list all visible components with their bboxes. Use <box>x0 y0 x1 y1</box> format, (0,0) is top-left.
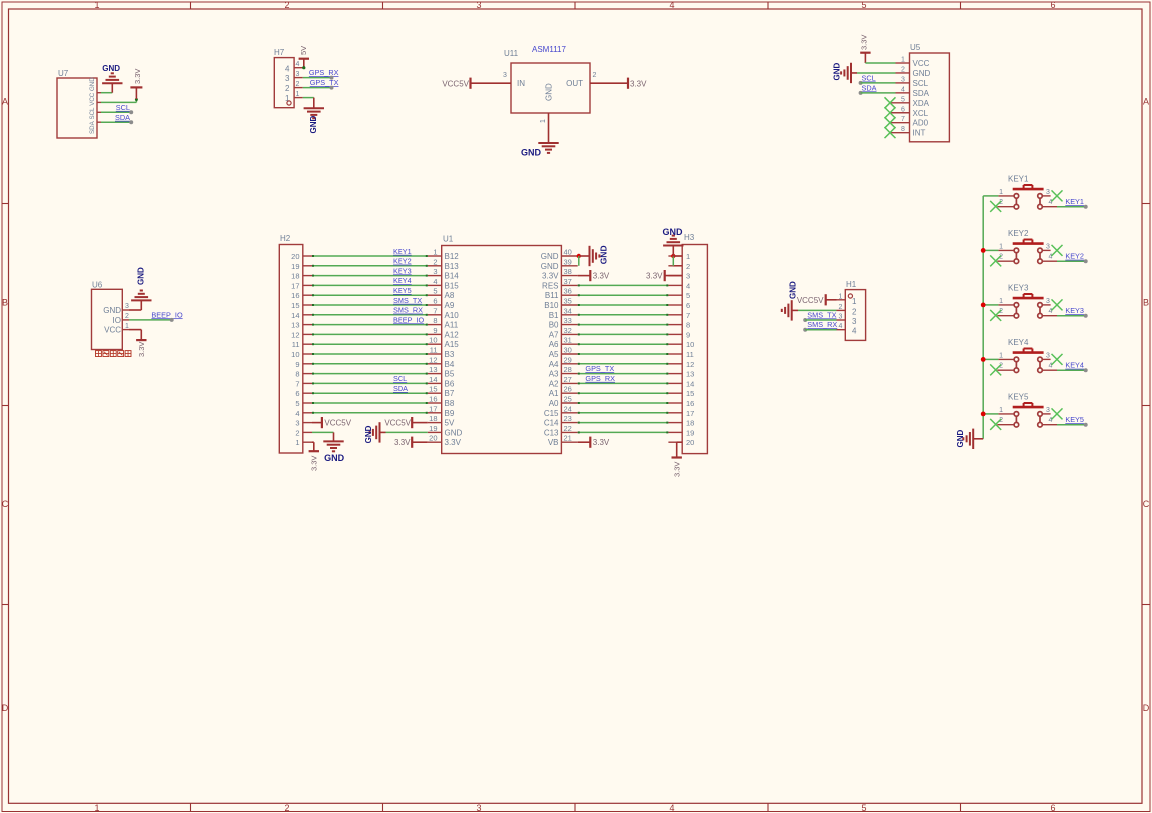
svg-text:3.3V: 3.3V <box>593 272 610 281</box>
pushbutton KEY4 <box>997 338 1057 373</box>
svg-text:2: 2 <box>901 66 905 73</box>
wire KEY4 pin1 to bus <box>983 358 998 360</box>
wire U1 pin23 to H3 pin18 <box>578 422 669 424</box>
svg-text:3.3V: 3.3V <box>133 69 142 84</box>
svg-text:28: 28 <box>564 365 572 374</box>
svg-text:14: 14 <box>291 311 299 320</box>
net label GPS_RX <box>309 68 339 79</box>
svg-text:32: 32 <box>564 326 572 335</box>
svg-text:U5: U5 <box>910 43 921 52</box>
svg-text:22: 22 <box>564 424 572 433</box>
svg-text:21: 21 <box>564 434 572 443</box>
svg-text:7: 7 <box>686 311 690 320</box>
svg-text:KEY3: KEY3 <box>1008 283 1029 292</box>
no-connect X at KEY1 pin3 <box>1052 190 1063 201</box>
no-connect X at U5 pin8 <box>885 127 896 138</box>
svg-text:GND: GND <box>541 262 559 271</box>
svg-text:9: 9 <box>686 330 690 339</box>
no-connect X at U5 pin5 <box>885 97 896 108</box>
net label KEY4 on U1 left <box>393 276 412 285</box>
wire H2 pin17 to U1 pin4 <box>312 284 428 286</box>
svg-text:KEY5: KEY5 <box>393 286 412 295</box>
net label KEY1 <box>1065 197 1087 209</box>
junction at KEY4 pin1 <box>981 357 986 362</box>
svg-text:GND: GND <box>364 425 373 443</box>
svg-text:U1: U1 <box>443 235 454 244</box>
svg-text:16: 16 <box>429 395 437 404</box>
svg-text:13: 13 <box>429 365 437 374</box>
svg-text:11: 11 <box>686 350 694 359</box>
junction at U1 pin40 <box>577 254 581 258</box>
svg-text:C: C <box>2 499 9 509</box>
net label SMS_TX on U1 left <box>393 296 422 305</box>
svg-text:B9: B9 <box>445 409 455 418</box>
svg-text:10: 10 <box>686 340 694 349</box>
svg-text:SDA: SDA <box>862 83 877 92</box>
wire H2 pin2 to ground <box>312 431 334 433</box>
no-connect X at KEY4 pin2 <box>990 364 1001 375</box>
ground symbol at key bus <box>956 429 974 449</box>
svg-text:U7: U7 <box>58 69 69 78</box>
svg-text:H7: H7 <box>274 48 285 57</box>
svg-text:4: 4 <box>852 327 857 336</box>
svg-text:A: A <box>2 97 8 107</box>
svg-text:5V: 5V <box>299 46 308 55</box>
svg-text:8: 8 <box>433 316 437 325</box>
net label BEEP_IO at U6 <box>151 310 183 322</box>
svg-text:3.3V: 3.3V <box>137 342 146 357</box>
svg-text:3.3V: 3.3V <box>394 438 411 447</box>
svg-text:XDA: XDA <box>913 99 930 108</box>
svg-text:A8: A8 <box>445 291 455 300</box>
svg-text:4: 4 <box>295 409 299 418</box>
wire H1 pin3 <box>805 319 836 321</box>
svg-text:6: 6 <box>1050 803 1055 813</box>
svg-text:1: 1 <box>839 293 843 300</box>
svg-text:2: 2 <box>295 428 299 437</box>
wire U7 pin SDA <box>101 121 131 123</box>
svg-text:SDA: SDA <box>115 113 130 122</box>
svg-text:A4: A4 <box>549 360 559 369</box>
power flag 3.3V at H3 pin3 <box>646 270 682 281</box>
no-connect X at KEY5 pin3 <box>1052 408 1063 419</box>
pushbutton KEY1 <box>997 174 1057 209</box>
ground symbol at H3 pin1 <box>663 227 684 256</box>
svg-text:A9: A9 <box>445 301 455 310</box>
svg-text:GND: GND <box>103 306 121 315</box>
svg-text:ASM1117: ASM1117 <box>532 45 566 54</box>
svg-text:SCL: SCL <box>116 103 130 112</box>
net label SDA at U7 <box>115 113 133 124</box>
wire H2 pin16 to U1 pin5 <box>312 294 428 296</box>
svg-text:8: 8 <box>295 370 299 379</box>
net label BEEP_IO on U1 left <box>393 315 425 324</box>
svg-text:20: 20 <box>429 434 437 443</box>
wire U6 pin1 <box>129 329 141 331</box>
svg-text:8: 8 <box>686 321 690 330</box>
svg-text:VB: VB <box>548 438 559 447</box>
svg-text:C14: C14 <box>544 419 559 428</box>
svg-text:U11: U11 <box>504 49 519 58</box>
svg-text:IN: IN <box>517 79 525 88</box>
svg-text:3: 3 <box>296 71 300 78</box>
svg-text:26: 26 <box>564 385 572 394</box>
svg-text:29: 29 <box>564 355 572 364</box>
wire U7 pin GND <box>101 92 112 94</box>
svg-text:5: 5 <box>861 803 866 813</box>
ground symbol at U11 <box>521 134 559 158</box>
svg-text:8: 8 <box>901 126 905 133</box>
svg-text:C13: C13 <box>544 428 559 437</box>
svg-text:19: 19 <box>429 424 437 433</box>
wire H3 pin2 to junction <box>673 256 682 266</box>
svg-text:4: 4 <box>901 86 905 93</box>
no-connect X at KEY5 pin2 <box>990 419 1001 430</box>
svg-text:40: 40 <box>564 248 572 257</box>
svg-text:10: 10 <box>291 350 299 359</box>
wire H7 pin2 GPS_TX <box>303 87 332 89</box>
net label KEY1 on U1 left <box>393 247 412 256</box>
svg-text:GPS_TX: GPS_TX <box>310 78 339 87</box>
svg-text:3.3V: 3.3V <box>672 462 681 477</box>
wire H2 pin15 to U1 pin6 <box>312 304 428 306</box>
svg-text:4: 4 <box>296 61 300 68</box>
wire H1 pin4 <box>805 329 836 331</box>
svg-text:INT: INT <box>913 129 926 138</box>
svg-text:SDA: SDA <box>913 89 930 98</box>
svg-text:KEY3: KEY3 <box>1065 306 1084 315</box>
svg-text:7: 7 <box>295 379 299 388</box>
svg-text:1: 1 <box>295 438 299 447</box>
wire H2 pin12 to U1 pin9 <box>312 333 428 335</box>
svg-text:14: 14 <box>686 379 694 388</box>
svg-text:3: 3 <box>476 0 481 10</box>
svg-text:30: 30 <box>564 346 572 355</box>
svg-text:16: 16 <box>686 399 694 408</box>
svg-text:23: 23 <box>564 414 572 423</box>
wire U1 pin25 to H3 pin16 <box>578 402 669 404</box>
svg-text:1: 1 <box>999 298 1003 305</box>
power flag 3.3V at U5 pin1 <box>860 35 871 63</box>
svg-text:3: 3 <box>1046 353 1050 360</box>
svg-text:BEEP_IO: BEEP_IO <box>151 310 183 319</box>
svg-text:3.3V: 3.3V <box>860 35 869 50</box>
svg-text:GPS_TX: GPS_TX <box>585 364 614 373</box>
svg-text:KEY1: KEY1 <box>393 247 412 256</box>
svg-text:31: 31 <box>564 336 572 345</box>
svg-text:SDA SCL VCC GND: SDA SCL VCC GND <box>89 77 96 134</box>
svg-text:KEY1: KEY1 <box>1008 174 1029 183</box>
svg-text:6: 6 <box>686 301 690 310</box>
svg-text:SMS_TX: SMS_TX <box>393 296 422 305</box>
svg-text:17: 17 <box>429 404 437 413</box>
wire U1 pin34 to H3 pin7 <box>578 314 669 316</box>
label beeper module (Chinese) at U6 <box>96 351 132 357</box>
svg-text:3: 3 <box>686 272 690 281</box>
svg-text:3: 3 <box>476 803 481 813</box>
svg-text:3: 3 <box>1046 244 1050 251</box>
wire KEY1 pin1 to bus <box>983 195 998 197</box>
wire U7 pin VCC <box>101 98 138 102</box>
wire KEY4 pin4 <box>1057 369 1086 371</box>
svg-text:B13: B13 <box>445 262 460 271</box>
header H1 <box>837 280 866 340</box>
svg-text:U6: U6 <box>92 281 103 290</box>
svg-text:A5: A5 <box>549 350 559 359</box>
svg-text:B6: B6 <box>445 379 455 388</box>
svg-text:B3: B3 <box>445 350 455 359</box>
svg-text:5: 5 <box>861 0 866 10</box>
svg-text:SMS_RX: SMS_RX <box>393 306 423 315</box>
junction at KEY2 pin1 <box>981 248 986 253</box>
pushbutton KEY2 <box>997 229 1057 264</box>
svg-text:KEY5: KEY5 <box>1065 415 1084 424</box>
wire H2 pin11 to U1 pin10 <box>312 343 428 345</box>
power flag 3.3V at U1 pin38 <box>578 270 610 281</box>
svg-text:3: 3 <box>285 74 290 83</box>
svg-text:3: 3 <box>295 419 299 428</box>
net label GPS_TX <box>310 78 339 89</box>
svg-text:B8: B8 <box>445 399 455 408</box>
svg-text:14: 14 <box>429 375 437 384</box>
power flag 3.3V at U6 pin1 <box>136 330 146 357</box>
svg-text:6: 6 <box>901 106 905 113</box>
svg-text:GND: GND <box>788 281 797 299</box>
svg-text:1: 1 <box>433 248 437 257</box>
svg-text:2: 2 <box>433 257 437 266</box>
wire U6 pin3 to ground <box>129 309 141 311</box>
wire H2 pin18 to U1 pin3 <box>312 275 428 277</box>
net label SMS_RX on U1 left <box>393 306 423 315</box>
svg-text:38: 38 <box>564 267 572 276</box>
svg-text:1: 1 <box>852 297 857 306</box>
svg-text:6: 6 <box>433 297 437 306</box>
wire H2 pin13 to U1 pin8 <box>312 324 428 326</box>
svg-text:GND: GND <box>137 267 146 285</box>
wire U1 pin33 to H3 pin8 <box>578 324 669 326</box>
svg-text:9: 9 <box>295 360 299 369</box>
wire KEY2 pin1 to bus <box>983 249 998 251</box>
svg-text:D: D <box>1143 703 1150 713</box>
no-connect X at KEY3 pin3 <box>1052 299 1063 310</box>
svg-text:2: 2 <box>284 803 289 813</box>
svg-text:B11: B11 <box>545 291 559 300</box>
power flag 3.3V at U11 pin2 <box>590 78 647 89</box>
svg-text:H1: H1 <box>846 280 857 289</box>
svg-text:20: 20 <box>291 252 299 261</box>
svg-text:VCC5V: VCC5V <box>797 296 824 305</box>
svg-text:2: 2 <box>125 313 129 320</box>
svg-text:6: 6 <box>295 389 299 398</box>
svg-text:1: 1 <box>999 353 1003 360</box>
svg-text:B0: B0 <box>549 321 559 330</box>
svg-text:18: 18 <box>429 414 437 423</box>
svg-text:KEY4: KEY4 <box>393 276 412 285</box>
svg-text:KEY2: KEY2 <box>1008 229 1029 238</box>
svg-text:7: 7 <box>901 116 905 123</box>
svg-text:3: 3 <box>1046 407 1050 414</box>
svg-text:SMS_RX: SMS_RX <box>807 320 837 329</box>
junction at KEY5 pin1 <box>981 412 986 417</box>
wire U5 pin3 <box>861 82 896 84</box>
IC U6 <box>92 281 130 350</box>
wire KEY3 pin1 to bus <box>983 304 998 306</box>
wire U1 pin27 to H3 pin14 <box>578 382 669 384</box>
net label KEY4 <box>1065 361 1087 373</box>
net label KEY5 <box>1065 415 1087 427</box>
wire H2 pin7 to U1 pin14 <box>312 382 428 384</box>
svg-text:A15: A15 <box>445 340 460 349</box>
svg-text:11: 11 <box>292 340 300 349</box>
no-connect X at KEY2 pin3 <box>1052 245 1063 256</box>
wire U1 pin40 to ground junction <box>578 255 580 257</box>
svg-text:3.3V: 3.3V <box>646 272 663 281</box>
svg-text:4: 4 <box>686 281 690 290</box>
svg-text:5: 5 <box>686 291 690 300</box>
wire U1 pin24 to H3 pin17 <box>578 412 669 414</box>
power flag VCC5V at U11 pin3 <box>442 78 511 89</box>
svg-text:36: 36 <box>564 287 572 296</box>
svg-text:13: 13 <box>291 321 299 330</box>
svg-text:1: 1 <box>540 119 547 123</box>
svg-text:5: 5 <box>433 287 437 296</box>
svg-text:GND: GND <box>599 245 609 264</box>
svg-text:H2: H2 <box>280 234 291 243</box>
wire U7 pin SCL <box>101 111 131 113</box>
svg-text:1: 1 <box>94 0 99 10</box>
svg-text:GND: GND <box>956 430 965 448</box>
ground symbol at U1 pin19 <box>364 422 386 443</box>
no-connect X at U5 pin6 <box>885 107 896 118</box>
svg-text:3: 3 <box>901 76 905 83</box>
svg-text:1: 1 <box>999 244 1003 251</box>
svg-text:VCC5V: VCC5V <box>384 419 411 428</box>
wire U1 pin29 to H3 pin12 <box>578 363 669 365</box>
IC U1 <box>428 235 578 454</box>
wire U1 pin31 to H3 pin10 <box>578 343 669 345</box>
net label SDA at U5 <box>859 83 877 94</box>
ground symbol at H2 pin2 <box>323 432 344 462</box>
wire U1 pin35 to H3 pin6 <box>578 304 669 306</box>
svg-text:AD0: AD0 <box>913 119 929 128</box>
svg-text:B4: B4 <box>445 360 455 369</box>
wire KEY3 pin4 <box>1057 315 1086 317</box>
wire H2 pin14 to U1 pin7 <box>312 314 428 316</box>
ground symbol at U7 <box>102 64 122 93</box>
svg-text:19: 19 <box>686 428 694 437</box>
wire ground bus for keys <box>974 196 983 439</box>
svg-text:3: 3 <box>852 317 857 326</box>
svg-text:GPS_RX: GPS_RX <box>585 374 615 383</box>
net label SCL at U5 <box>859 74 876 85</box>
svg-text:B7: B7 <box>445 389 455 398</box>
svg-text:D: D <box>2 703 9 713</box>
ground symbol at H7 <box>304 98 324 134</box>
net label KEY2 on U1 left <box>393 257 412 266</box>
svg-text:SDA: SDA <box>393 384 408 393</box>
wire KEY5 pin1 to bus <box>983 413 998 415</box>
svg-text:B: B <box>1143 298 1149 308</box>
svg-text:5: 5 <box>901 96 905 103</box>
svg-text:25: 25 <box>564 395 572 404</box>
wire H1 pin2 <box>798 309 837 311</box>
svg-text:KEY4: KEY4 <box>1065 361 1084 370</box>
wire H2 pin20 to U1 pin1 <box>312 255 428 257</box>
svg-text:2: 2 <box>285 84 290 93</box>
power flag 3.3V at H2 pin1 <box>309 442 319 471</box>
wire U5 pin2 <box>857 72 896 74</box>
svg-text:GND: GND <box>545 83 554 101</box>
svg-text:7: 7 <box>433 306 437 315</box>
wire H2 pin19 to U1 pin2 <box>312 265 428 267</box>
svg-text:C15: C15 <box>544 409 559 418</box>
power flag 3.3V at U7 <box>130 69 142 99</box>
no-connect X at KEY1 pin2 <box>990 201 1001 212</box>
net label SDA on U1 left <box>393 384 408 393</box>
net label SMS_TX at H1 <box>803 310 836 322</box>
junction at H3 pin1 <box>671 254 675 258</box>
svg-text:B12: B12 <box>445 252 460 261</box>
svg-text:A7: A7 <box>549 330 559 339</box>
power flag VCC5V at H1 pin1 <box>797 294 837 305</box>
wire U6 pin2 BEEP_IO <box>129 319 172 321</box>
ground symbol at U5 pin2 <box>833 63 858 84</box>
svg-text:A11: A11 <box>445 321 459 330</box>
no-connect X at U5 pin7 <box>885 117 896 128</box>
svg-text:GND: GND <box>913 69 931 78</box>
no-connect X at KEY2 pin2 <box>990 255 1001 266</box>
net label KEY2 <box>1065 252 1087 264</box>
wire U1 pin28 to H3 pin13 <box>578 373 669 375</box>
svg-text:4: 4 <box>669 803 674 813</box>
wire U1 pin37 to H3 pin4 <box>578 284 669 286</box>
IC U7 <box>57 69 101 138</box>
svg-text:18: 18 <box>291 272 299 281</box>
wire U1 pin26 to H3 pin15 <box>578 392 669 394</box>
svg-text:1: 1 <box>296 91 300 98</box>
svg-text:BEEP_IO: BEEP_IO <box>393 315 425 324</box>
svg-text:GPS_RX: GPS_RX <box>309 68 339 77</box>
svg-text:15: 15 <box>429 385 437 394</box>
svg-text:SCL: SCL <box>913 79 929 88</box>
svg-text:A3: A3 <box>549 370 559 379</box>
svg-text:37: 37 <box>564 277 572 286</box>
header H2 <box>279 234 312 453</box>
net label KEY5 on U1 left <box>393 286 412 295</box>
svg-text:1: 1 <box>999 407 1003 414</box>
svg-text:3: 3 <box>1046 189 1050 196</box>
svg-text:B: B <box>2 298 8 308</box>
no-connect X at KEY3 pin2 <box>990 310 1001 321</box>
svg-text:17: 17 <box>686 409 694 418</box>
svg-text:VCC5V: VCC5V <box>324 419 351 428</box>
svg-text:KEY3: KEY3 <box>393 266 412 275</box>
svg-text:33: 33 <box>564 316 572 325</box>
pushbutton KEY3 <box>997 283 1057 318</box>
svg-text:3.3V: 3.3V <box>309 456 318 471</box>
svg-text:A12: A12 <box>445 330 460 339</box>
svg-text:10: 10 <box>429 336 437 345</box>
wire KEY2 pin4 <box>1057 260 1086 262</box>
svg-text:4: 4 <box>669 0 674 10</box>
junction at KEY3 pin1 <box>981 303 986 308</box>
svg-text:6: 6 <box>1050 0 1055 10</box>
svg-text:3.3V: 3.3V <box>445 438 462 447</box>
net label GPS_RX on U1 right <box>585 374 615 383</box>
svg-text:3: 3 <box>125 303 129 310</box>
svg-text:A2: A2 <box>549 379 559 388</box>
wire KEY1 pin4 <box>1057 206 1086 208</box>
